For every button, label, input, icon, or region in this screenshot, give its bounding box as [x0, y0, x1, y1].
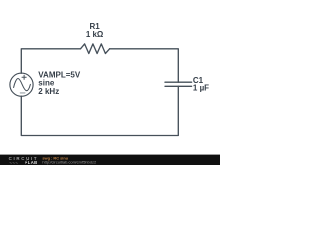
svg-text:1 µF: 1 µF [193, 83, 209, 92]
voltage source V1 circle [10, 73, 33, 96]
svg-text:LAB: LAB [28, 160, 38, 165]
svg-text:1 kΩ: 1 kΩ [86, 30, 104, 39]
resistor R1 [81, 44, 110, 54]
wire right rail lower + bottom rail [21, 86, 178, 135]
watermark bar [0, 155, 220, 165]
watermark logo bolt [25, 160, 28, 164]
capacitor C1 bottom plate [165, 85, 192, 87]
wire top rail right segment [110, 49, 179, 82]
minus sign [20, 92, 25, 94]
capacitor C1 top plate [165, 81, 192, 83]
plus sign [22, 75, 26, 79]
svg-text:∿∿∿: ∿∿∿ [9, 161, 18, 165]
sine symbol inside source [14, 79, 31, 91]
svg-text:http:⁄⁄circuitlab.com⁄cmf5hbdz: http:⁄⁄circuitlab.com⁄cmf5hbdz2 [42, 159, 97, 164]
svg-text:2 kHz: 2 kHz [38, 87, 59, 96]
wire top rail left segment [21, 49, 80, 74]
